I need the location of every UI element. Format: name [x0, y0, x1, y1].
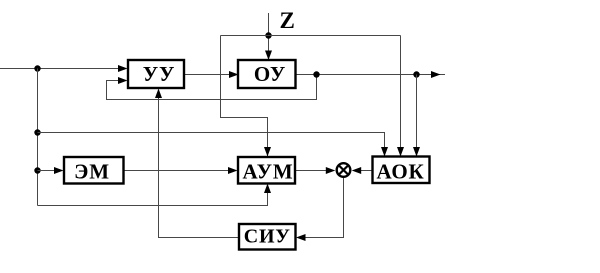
wire: rail to AOK top [38, 133, 389, 158]
wire: top rail [221, 35, 401, 37]
wire: UU to OU [184, 71, 239, 78]
block SIU [239, 224, 296, 250]
wire: main input line into UU [0, 65, 128, 72]
wire: trunk into EM [38, 167, 64, 174]
svg-text:СИУ: СИУ [244, 226, 291, 248]
node A: input junction [34, 65, 40, 71]
svg-text:ОУ: ОУ [254, 62, 286, 86]
wire: EM to AUM [124, 167, 238, 174]
node C: trunk junction to EM branch [34, 167, 40, 173]
svg-text:УУ: УУ [143, 62, 175, 86]
wire: top rail right drop to AOK top [397, 36, 404, 158]
svg-text:АУМ: АУМ [243, 160, 294, 184]
wire: multiplier down to SIU input [296, 178, 344, 241]
label Z [280, 8, 295, 33]
block UU (control unit) [128, 60, 184, 88]
wire: AOK to multiplier [352, 167, 373, 174]
block OU (plant) [238, 60, 296, 88]
wire: SIU output up into UU bottom [155, 89, 239, 238]
wire: top rail left drop to AUM top [221, 36, 272, 157]
wire: AUM to multiplier [295, 167, 335, 174]
node F: Z junction with top rail [265, 32, 271, 38]
wire: trunk bottom to AUM bottom input [38, 184, 272, 206]
wire: feedback from output node back to UU lower input [107, 75, 317, 100]
block AUM [238, 157, 295, 184]
svg-text:Z: Z [280, 8, 295, 33]
multiplier junction (circle with X) [337, 163, 351, 177]
block EM [64, 157, 124, 184]
node B: trunk junction to AOK branch [34, 129, 40, 135]
svg-text:АОК: АОК [376, 160, 424, 184]
node E: output junction to AOK [413, 71, 419, 77]
block AOK [373, 157, 430, 184]
wire: left trunk vertical [37, 69, 39, 206]
svg-text:ЭМ: ЭМ [74, 160, 110, 184]
wire: OU output line with end arrow [296, 71, 446, 78]
wire: Z input vertical into OU top [265, 13, 272, 60]
wire: node E down into AOK top [413, 75, 420, 158]
node D: output junction to feedback [313, 71, 319, 77]
